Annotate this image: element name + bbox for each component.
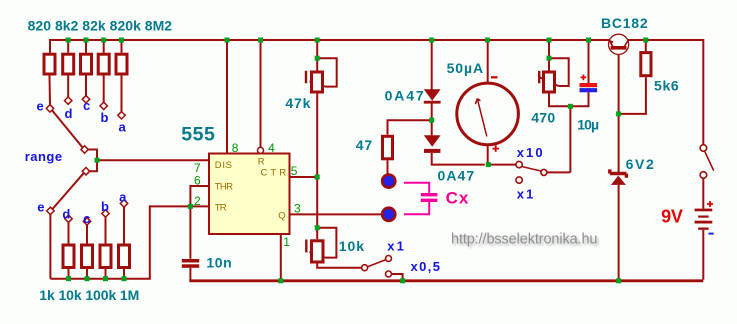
svg-text:3: 3 — [294, 202, 301, 216]
svg-text:50µA: 50µA — [447, 60, 484, 76]
svg-text:5: 5 — [291, 164, 298, 178]
svg-text:d: d — [65, 106, 73, 121]
svg-text:d: d — [62, 207, 70, 222]
svg-text:2: 2 — [194, 194, 201, 208]
svg-text:THR: THR — [215, 181, 234, 192]
svg-text:b: b — [101, 199, 109, 214]
svg-text:http://bsselektronika.hu: http://bsselektronika.hu — [451, 231, 598, 247]
svg-text:TR: TR — [215, 202, 227, 213]
svg-text:Q: Q — [278, 211, 286, 222]
svg-text:4: 4 — [268, 141, 275, 155]
svg-text:10n: 10n — [206, 255, 232, 271]
svg-text:a: a — [119, 190, 127, 205]
svg-text:c: c — [83, 98, 90, 113]
svg-text:CTR: CTR — [261, 167, 287, 178]
svg-text:DIS: DIS — [215, 160, 233, 171]
svg-text:b: b — [101, 110, 109, 125]
svg-text:470: 470 — [531, 109, 556, 125]
svg-text:5k6: 5k6 — [654, 78, 680, 94]
svg-text:R: R — [258, 156, 265, 167]
svg-text:47: 47 — [356, 137, 373, 153]
svg-text:820 8k2 82k 820k 8M2: 820 8k2 82k 820k 8M2 — [28, 17, 173, 33]
svg-text:x10: x10 — [517, 145, 543, 160]
svg-text:x0,5: x0,5 — [411, 259, 441, 274]
svg-text:6V2: 6V2 — [626, 156, 655, 172]
svg-text:555: 555 — [181, 124, 216, 146]
svg-text:10µ: 10µ — [577, 117, 600, 133]
svg-text:9V: 9V — [661, 207, 683, 227]
svg-text:1k 10k 100k 1M: 1k 10k 100k 1M — [39, 287, 139, 303]
svg-text:c: c — [83, 211, 90, 226]
svg-text:0A47: 0A47 — [385, 87, 425, 103]
svg-text:range: range — [25, 149, 62, 164]
svg-text:BC182: BC182 — [601, 15, 649, 31]
svg-text:a: a — [119, 120, 127, 135]
svg-text:1: 1 — [283, 235, 290, 249]
svg-text:e: e — [37, 199, 44, 214]
svg-text:6: 6 — [194, 174, 201, 188]
svg-text:47k: 47k — [285, 95, 311, 111]
svg-text:e: e — [37, 99, 44, 114]
svg-text:Cx: Cx — [446, 188, 469, 207]
svg-text:10k: 10k — [339, 238, 365, 254]
svg-text:0A47: 0A47 — [438, 168, 476, 184]
svg-text:8: 8 — [232, 141, 239, 155]
